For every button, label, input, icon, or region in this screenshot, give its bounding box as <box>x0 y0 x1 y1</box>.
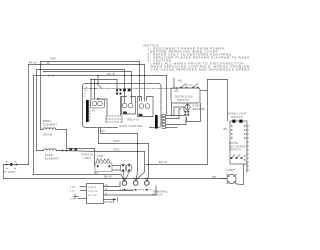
oven light switch terminals <box>232 120 242 123</box>
svg-text:RED: RED <box>114 149 120 152</box>
fuse link F2 <box>127 164 132 172</box>
wire box bottom to lamp <box>237 164 244 185</box>
wire stub 95 <box>94 80 96 100</box>
terminal stud L2 <box>145 181 150 186</box>
connector P2 bar <box>155 115 158 129</box>
svg-text:CAN CAUSE IMPROPER AND DANGERO: CAN CAUSE IMPROPER AND DANGEROUS OPERATI… <box>151 68 251 72</box>
oven light / door switch box <box>230 121 247 164</box>
wire right riser right leg <box>227 80 229 122</box>
svg-text:2-R 1-W: 2-R 1-W <box>88 191 98 193</box>
svg-text:SWITCH: SWITCH <box>231 116 243 119</box>
svg-text:P1: P1 <box>92 110 96 113</box>
wire door lock to right riser <box>201 90 208 92</box>
wire door lock bottom left leg <box>172 103 185 116</box>
console dash end mark <box>176 87 178 90</box>
wire fuse drops <box>123 172 124 180</box>
svg-text:LAMP: LAMP <box>227 169 235 172</box>
svg-text:W: W <box>47 62 50 65</box>
terminal stub labels <box>105 185 109 195</box>
svg-text:BU: BU <box>224 128 228 131</box>
pin number column inside box <box>85 87 88 98</box>
wire sensor lead 2 horizontal <box>179 108 181 110</box>
svg-text:TOD: TOD <box>97 155 103 158</box>
wire RED 1 <box>99 128 149 144</box>
wire trace vertical right <box>120 97 122 116</box>
relay K1 <box>91 99 105 108</box>
wire neutral rail bottom <box>4 178 228 180</box>
connector P2 pins <box>162 115 166 129</box>
hi-limit contacts <box>6 163 18 167</box>
door lock switch box <box>171 88 200 103</box>
ground lug arrow <box>74 196 78 198</box>
power cord junction box <box>87 184 104 204</box>
wire pin4 to door lock bottom <box>166 117 186 125</box>
wire pin2 to sensor lead <box>166 109 179 119</box>
console dashed boundary <box>84 88 177 90</box>
wire box to stud L1 <box>104 182 121 187</box>
bake element <box>37 149 61 151</box>
svg-text:RELAYS: RELAYS <box>128 119 140 122</box>
wire BU-W to right riser <box>146 164 208 166</box>
right edge terminal ticks <box>246 126 249 170</box>
connector P1 bar <box>86 100 89 122</box>
wire BK drop to terminal L1 <box>121 175 124 181</box>
door activated switch contacts <box>232 155 241 159</box>
wire TOD out 2 <box>112 169 121 171</box>
wire K1 to trace <box>98 98 107 100</box>
terminal hatch rows <box>106 116 122 123</box>
svg-text:3000W: 3000W <box>43 134 53 137</box>
wire console feeder row <box>91 79 117 81</box>
wire rail 3b <box>44 71 132 73</box>
wire cord stub 1 <box>80 186 87 188</box>
svg-text:1-W: 1-W <box>70 190 75 192</box>
wire vertical broil feed <box>40 62 42 130</box>
svg-text:BK: BK <box>95 172 99 175</box>
wire right riser bridge <box>208 79 228 81</box>
svg-text:LIMIT: LIMIT <box>83 157 91 160</box>
wire BU from board <box>101 128 138 134</box>
wire sensor lead horizontal <box>174 107 184 111</box>
wire rail 4 <box>34 75 167 77</box>
wire hi-limit row <box>4 164 29 166</box>
junction dots on neutral rail <box>123 178 149 179</box>
wire pin5 right <box>166 127 177 129</box>
relay K2 <box>122 97 136 115</box>
wire box to stud N <box>104 190 134 192</box>
wire vertical rail3b to relay <box>131 72 133 104</box>
wire right riser left leg <box>207 80 209 165</box>
wire drop rail4 to console row <box>97 76 99 80</box>
svg-text:OVEN CONTROL: OVEN CONTROL <box>119 125 143 128</box>
wire box cover ground <box>104 199 114 201</box>
wire cord stub 2 <box>80 190 87 192</box>
wire BU drop to terminal N <box>136 134 138 180</box>
wire cord stub 3 <box>78 198 87 200</box>
wire vertical hi-limit left <box>3 165 5 179</box>
P1 pin ticks <box>89 102 91 120</box>
junction dots on console dash <box>90 88 95 90</box>
broil element <box>41 128 67 130</box>
terminal stud L1 <box>122 181 127 186</box>
wire box to stud L2 <box>104 186 157 195</box>
junction dot K1 out <box>97 98 99 100</box>
junction dots console feeders <box>90 79 99 84</box>
svg-text:BK-W: BK-W <box>104 176 112 179</box>
svg-text:P9P: P9P <box>50 58 56 61</box>
wire trace vertical <box>106 99 108 116</box>
svg-text:ELEMENT: ELEMENT <box>45 158 59 161</box>
wire TOD out <box>112 165 121 167</box>
wire into door lock top <box>173 78 175 88</box>
wire vertical left BK-W to hi-limit <box>28 65 30 165</box>
wire rail 1 L1 <box>41 61 140 63</box>
oven lamp <box>227 174 236 183</box>
wire vertical rail4 to connector P2 <box>166 76 168 115</box>
wire drop to connector blobs <box>116 80 118 93</box>
svg-text:3-BK N: 3-BK N <box>88 187 96 189</box>
TOD sensor squiggle <box>96 159 110 163</box>
wire vertical rail4 to BK rail <box>33 76 35 175</box>
wire broil to TOD <box>67 148 95 150</box>
label OVEN CONTROL on box border <box>118 124 149 128</box>
svg-text:COVER: COVER <box>104 201 115 204</box>
svg-text:2-BK: 2-BK <box>70 186 76 188</box>
wire RED drop to terminal N <box>137 152 145 180</box>
wire vertical rail3 to bake element <box>36 70 38 151</box>
relay K1 contact arm <box>97 84 102 89</box>
wire rail 2 <box>29 64 145 66</box>
wire broil down <box>66 130 68 149</box>
TOD thermostat box <box>95 163 112 172</box>
oven control board box <box>83 84 162 128</box>
svg-text:BU-W: BU-W <box>159 161 167 164</box>
wire BK rail <box>33 174 121 176</box>
wire stub 98 <box>97 80 99 84</box>
wire TOD drop <box>94 149 96 167</box>
svg-text:RED: RED <box>114 140 120 143</box>
svg-text:BK-W: BK-W <box>29 61 37 64</box>
wire door lock bottom right leg <box>187 103 201 122</box>
oven sensor probe <box>185 104 190 109</box>
junction dots red column <box>137 143 139 153</box>
svg-text:NC: NC <box>175 90 179 93</box>
wire vertical rail2 to relay 2 <box>144 65 146 102</box>
fuse link F1 <box>121 164 126 172</box>
box left pin marks <box>231 125 245 160</box>
svg-text:GY CBL: GY CBL <box>88 195 98 197</box>
svg-text:NO: NO <box>178 80 182 83</box>
door lock switch contacts <box>181 84 198 88</box>
wire vertical rail3 to relay 1 <box>124 70 126 104</box>
svg-text:SWITCH: SWITCH <box>177 99 189 102</box>
svg-text:HI LIMIT: HI LIMIT <box>4 171 17 174</box>
wire pin1 to sensor lead <box>166 107 174 116</box>
wire stub 91 <box>90 80 92 100</box>
terminal ground dots <box>120 189 152 191</box>
svg-text:SWITCH: SWITCH <box>229 149 241 152</box>
junction dots top rails <box>40 64 146 77</box>
connector dots J1 <box>116 89 131 95</box>
notice text block <box>144 43 262 71</box>
wire RED drop to terminal L2 <box>147 144 148 180</box>
terminal stud N <box>133 181 138 186</box>
svg-text:BU: BU <box>102 130 106 133</box>
cord stub labels <box>70 186 76 200</box>
svg-text:SENSOR: SENSOR <box>193 108 206 111</box>
wire rail 3 <box>37 69 125 71</box>
svg-text:BK-W: BK-W <box>108 73 116 76</box>
svg-text:ELEMENT: ELEMENT <box>43 123 57 126</box>
wire lamp feed jog <box>219 178 227 180</box>
bake line contacts <box>60 151 98 152</box>
wire vertical from rail1 to relays <box>139 62 141 102</box>
wire RED 2 <box>98 151 145 153</box>
oven sensor dots <box>184 111 189 116</box>
relay K3 <box>138 97 154 117</box>
